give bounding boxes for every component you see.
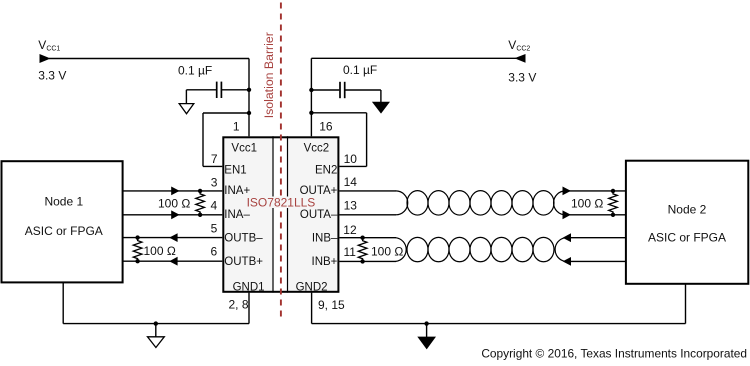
capacitor C2 plates — [339, 82, 341, 98]
wire GND2 pin stub 9,15 — [311, 293, 313, 324]
wire INB+ to Node 2 — [566, 260, 627, 262]
svg-text:3: 3 — [211, 176, 218, 190]
VCC1 supply arrow — [40, 54, 51, 63]
wire INA- — [123, 214, 223, 216]
svg-text:11: 11 — [344, 245, 357, 259]
U1 label cover — [245, 197, 316, 209]
wire OUTA- from pin 13 — [339, 214, 396, 216]
svg-text:16: 16 — [319, 120, 333, 134]
wire EN2 loop horizontal top — [311, 112, 366, 114]
svg-text:100 Ω: 100 Ω — [571, 197, 603, 211]
svg-text:INA+: INA+ — [224, 185, 250, 197]
svg-text:OUTA–: OUTA– — [300, 209, 338, 221]
wire VCC2 horizontal — [311, 57, 516, 59]
wire OUTA+ to Node 2 — [566, 190, 627, 192]
junction OUTB- resistor — [135, 235, 139, 239]
wire VCC1 horizontal — [49, 58, 249, 60]
junction INB+ resistor — [360, 259, 364, 263]
arrow INB- — [563, 233, 571, 242]
svg-text:3.3 V: 3.3 V — [38, 68, 66, 82]
twisted pair B left cap — [396, 238, 406, 262]
svg-text:OUTB–: OUTB– — [224, 232, 263, 244]
svg-text:0.1 µF: 0.1 µF — [178, 63, 212, 77]
svg-text:ASIC or FPGA: ASIC or FPGA — [648, 231, 726, 245]
isolation barrier dashed line — [280, 3, 282, 321]
wire EN1 loop horizontal top — [203, 112, 249, 114]
svg-text:100 Ω: 100 Ω — [158, 196, 190, 210]
U1 inner split line right — [287, 136, 289, 292]
svg-text:Vcc2: Vcc2 — [304, 143, 330, 155]
twisted pair B loops — [407, 237, 554, 261]
ground GND2 filled triangle — [417, 337, 436, 350]
wire GND1 bus — [63, 323, 249, 325]
svg-text:100 Ω: 100 Ω — [144, 244, 176, 258]
VCC2 supply arrow — [514, 54, 525, 63]
arrow INA- — [171, 210, 179, 219]
wire OUTB- — [123, 237, 223, 239]
svg-text:0.1 µF: 0.1 µF — [343, 63, 377, 77]
wire Node 2 ground drop — [685, 284, 687, 324]
wire C2 left lead — [311, 89, 339, 91]
wire EN1 loop into pin 7 — [203, 165, 222, 167]
twisted pair A right cap — [554, 191, 566, 215]
wire INA+ — [123, 190, 223, 192]
junction OUTA- resistor — [611, 213, 615, 217]
junction OUTB+ resistor — [135, 259, 139, 263]
capacitor C1 plates — [216, 82, 218, 98]
arrow INA+ — [171, 187, 179, 196]
svg-text:OUTB+: OUTB+ — [224, 256, 263, 268]
arrow INB+ — [563, 257, 571, 266]
svg-text:ISO7821LLS: ISO7821LLS — [247, 196, 316, 210]
svg-text:GND1: GND1 — [233, 281, 265, 293]
wire INB- from pin 12 — [339, 237, 396, 239]
wire EN2 loop vertical — [366, 113, 368, 167]
arrow OUTA+ — [563, 187, 571, 196]
junction GND1 bus — [154, 321, 158, 325]
wire OUTB+ — [123, 260, 223, 262]
wire GND2 bus — [312, 323, 686, 325]
junction C1 to VCC1 — [247, 88, 251, 92]
svg-text:2, 8: 2, 8 — [228, 298, 248, 312]
wire C1 right lead — [222, 89, 249, 91]
wire OUTA+ from pin 14 — [339, 190, 396, 192]
svg-text:Node 2: Node 2 — [668, 203, 707, 217]
ground GND2 at C2 stub — [380, 90, 382, 102]
svg-text:10: 10 — [344, 152, 358, 166]
junction INB- resistor — [360, 236, 364, 240]
wire Node 1 ground drop — [62, 282, 64, 323]
ground GND2 filled triangle — [372, 102, 390, 114]
svg-text:3.3 V: 3.3 V — [508, 71, 536, 85]
junction EN1 tie to VCC1 — [247, 111, 251, 115]
svg-text:INA–: INA– — [224, 209, 250, 221]
svg-text:EN1: EN1 — [224, 164, 246, 176]
junction C2 to VCC2 — [309, 88, 313, 92]
resistor 100 Ω INB termination — [358, 238, 367, 262]
svg-text:Node 1: Node 1 — [44, 195, 83, 209]
op-amp U1 ISO7821LLS body — [223, 137, 338, 291]
svg-text:GND2: GND2 — [296, 281, 328, 293]
wire VCC1 vertical to pin 1 — [248, 59, 250, 137]
resistor 100 Ω OUTB termination — [133, 238, 142, 262]
svg-text:INB+: INB+ — [312, 256, 338, 268]
junction OUTA+ resistor — [611, 189, 615, 193]
svg-text:14: 14 — [344, 175, 358, 189]
resistor 100 Ω OUTA termination — [609, 191, 618, 215]
svg-text:Isolation Barrier: Isolation Barrier — [262, 32, 276, 118]
junction GND2 bus — [424, 321, 428, 325]
ground GND2 stub — [426, 324, 428, 337]
node Node 1 box — [2, 161, 123, 282]
svg-text:9, 15: 9, 15 — [318, 298, 345, 312]
wire INB- to Node 2 — [566, 237, 627, 239]
ground GND1 open triangle — [179, 104, 194, 114]
ground GND1 open triangle — [148, 337, 165, 348]
arrow OUTB- — [169, 233, 177, 242]
wire OUTA- to Node 2 — [566, 214, 627, 216]
wire C1 left lead — [186, 89, 216, 91]
svg-text:OUTA+: OUTA+ — [300, 185, 338, 197]
junction EN2 tie to VCC2 — [309, 111, 313, 115]
svg-text:ASIC or FPGA: ASIC or FPGA — [25, 224, 103, 238]
junction INA- resistor — [198, 213, 202, 217]
resistor 100 Ω INA termination — [196, 191, 205, 215]
svg-text:7: 7 — [211, 152, 218, 166]
wire EN1 loop vertical — [202, 113, 204, 166]
wire INB+ from pin 11 — [339, 260, 396, 262]
U1 inner split line left — [272, 136, 274, 292]
svg-text:EN2: EN2 — [315, 164, 337, 176]
svg-text:Copyright © 2016, Texas Instru: Copyright © 2016, Texas Instruments Inco… — [481, 347, 747, 361]
wire EN2 loop into pin 10 — [339, 165, 366, 167]
arrow OUTA- — [563, 210, 571, 219]
svg-text:12: 12 — [343, 223, 357, 237]
twisted pair A left cap — [396, 191, 408, 215]
twisted pair B right cap — [555, 238, 565, 262]
svg-text:100 Ω: 100 Ω — [371, 245, 403, 259]
junction INA+ resistor — [198, 189, 202, 193]
svg-text:5: 5 — [211, 222, 218, 236]
node Node 2 box — [626, 161, 748, 284]
svg-text:INB–: INB– — [312, 232, 338, 244]
svg-text:13: 13 — [344, 198, 358, 212]
wire C2 right lead — [345, 89, 381, 91]
arrow OUTB+ — [169, 257, 177, 266]
svg-text:4: 4 — [211, 198, 218, 212]
wire GND1 pin stub 2,8 — [248, 293, 250, 324]
svg-text:1: 1 — [233, 119, 240, 133]
wire VCC2 vertical to pin 16 — [310, 58, 312, 136]
svg-text:6: 6 — [211, 245, 218, 259]
twisted pair A loops — [407, 191, 554, 215]
ground GND1 stub — [155, 324, 157, 337]
svg-text:Vcc1: Vcc1 — [231, 143, 257, 155]
ground GND1 at C1 stub — [185, 90, 187, 104]
